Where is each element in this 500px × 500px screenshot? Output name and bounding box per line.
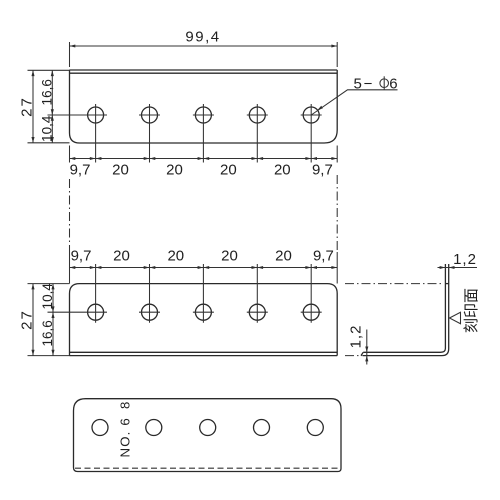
svg-text:20: 20 <box>221 248 238 265</box>
svg-text:1,2: 1,2 <box>453 251 477 268</box>
hole A2 centerlines <box>139 104 160 163</box>
hole B1 centerlines <box>48 264 108 323</box>
side profile chain line bottom <box>345 355 363 357</box>
svg-text:99,4: 99,4 <box>185 29 220 46</box>
hole A1 <box>88 107 104 123</box>
callout 5-phi6 <box>311 76 397 116</box>
dimension 1,2 thickness bottom <box>348 325 369 365</box>
hole B2 centerlines <box>139 264 160 323</box>
top view bend line <box>70 72 338 74</box>
front view left dimension 16,6 <box>40 312 55 355</box>
svg-text:27: 27 <box>19 309 36 330</box>
hole C2 <box>146 420 162 436</box>
svg-text:9,7: 9,7 <box>312 162 333 179</box>
hole B3 centerlines <box>193 264 214 323</box>
top view outline <box>70 70 338 143</box>
bottom view outline <box>74 399 342 472</box>
svg-text:20: 20 <box>275 248 292 265</box>
hole A1 centerlines <box>48 104 108 163</box>
side profile inner surface <box>363 264 445 352</box>
side profile top edge cap <box>445 283 448 285</box>
side profile outer surface <box>363 264 449 356</box>
front view left dimension 10,4 <box>40 283 55 356</box>
dimension 1,2 thickness top <box>438 251 478 269</box>
svg-text:16,6: 16,6 <box>40 320 55 346</box>
hole A2 <box>142 107 158 123</box>
svg-text:10,4: 10,4 <box>40 115 55 142</box>
svg-text:20: 20 <box>112 162 129 179</box>
hole B2 <box>142 304 158 320</box>
svg-text:9,7: 9,7 <box>313 248 334 265</box>
hole A5 <box>303 107 319 123</box>
svg-text:27: 27 <box>19 96 36 117</box>
hole B3 <box>195 304 211 320</box>
hole A3 <box>195 107 211 123</box>
top view left dimension 27 <box>19 70 70 143</box>
front view outline <box>70 284 338 356</box>
hole C3 <box>200 420 216 436</box>
hole C5 <box>307 420 323 436</box>
svg-text:20: 20 <box>166 162 183 179</box>
svg-text:1,2: 1,2 <box>348 325 365 349</box>
hole A4 <box>249 107 265 123</box>
hole B4 <box>249 304 265 320</box>
hole C1 <box>92 420 108 436</box>
svg-text:刻印面: 刻印面 <box>463 288 480 333</box>
hole B5 centerlines <box>301 264 322 323</box>
hole B4 centerlines <box>247 264 268 323</box>
stamp face symbol triangle <box>450 312 461 323</box>
hole A4 centerlines <box>247 104 268 163</box>
svg-text:20: 20 <box>113 248 130 265</box>
svg-text:20: 20 <box>167 248 184 265</box>
hole B1 <box>88 304 104 320</box>
hole A3 centerlines <box>193 104 214 163</box>
top view left dimension 16,6 <box>40 70 55 143</box>
hole C4 <box>254 420 270 436</box>
bottom view hidden bend line <box>75 467 340 469</box>
svg-text:20: 20 <box>220 162 237 179</box>
centerline right bend axis <box>336 175 338 252</box>
svg-text:NO. 68: NO. 68 <box>118 401 133 458</box>
hole A5 centerlines <box>301 104 322 163</box>
top view left dimension 10,4 <box>40 115 55 143</box>
svg-text:16,6: 16,6 <box>40 79 55 105</box>
svg-text:10,4: 10,4 <box>40 283 55 310</box>
front view pitch dimension row 9,7 / 20 <box>70 248 338 270</box>
front view bend line <box>70 351 338 353</box>
centerline left bend axis <box>69 179 71 252</box>
side profile chain line top <box>345 283 444 285</box>
top view pitch dimension row 9,7 / 20 <box>70 146 338 179</box>
front view left dimension 27 <box>19 284 70 356</box>
svg-text:20: 20 <box>274 162 291 179</box>
hole B5 <box>303 304 319 320</box>
dimension 99,4 <box>70 29 338 68</box>
svg-text:9,7: 9,7 <box>70 162 91 179</box>
side profile foot end cap <box>361 352 363 355</box>
svg-text:9,7: 9,7 <box>71 248 92 265</box>
